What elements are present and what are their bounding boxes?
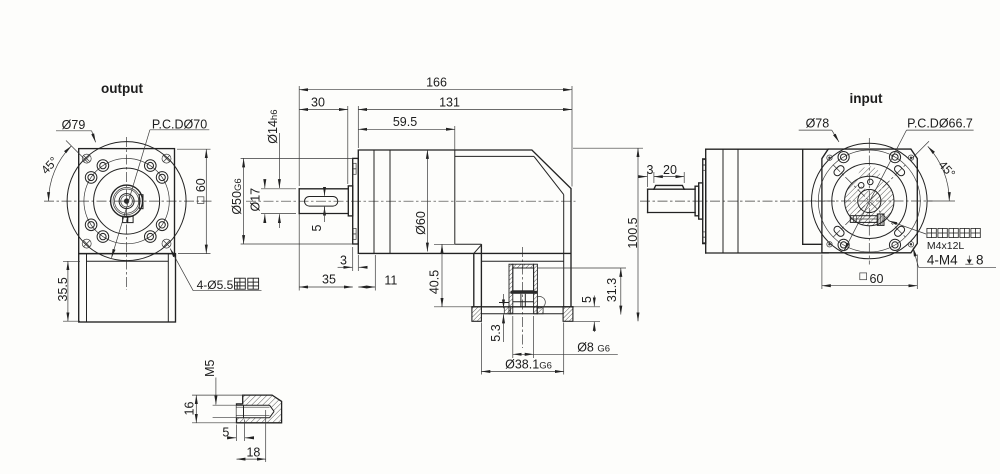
- dimension Ø38.1G6: [481, 323, 563, 375]
- set screw head: [877, 214, 884, 225]
- output shaft: [299, 189, 348, 214]
- ringed hole BR: [889, 239, 900, 250]
- svg-text:8: 8: [976, 253, 984, 268]
- dimension 45 degrees (right): [910, 141, 958, 201]
- slot TR: [893, 164, 906, 177]
- corner hole TR: [908, 155, 913, 160]
- dimension 100.5: [573, 148, 643, 321]
- svg-text:Ø79: Ø79: [62, 118, 86, 132]
- dimension Ø79: [56, 118, 96, 142]
- hatched hub annulus: [845, 166, 894, 226]
- plate tab notches: [703, 160, 706, 165]
- face crosshair centerlines: [806, 200, 933, 202]
- keyway notch right of hub: [139, 195, 143, 209]
- svg-text:40.5: 40.5: [428, 270, 442, 294]
- M5 tapped hole channel: [237, 405, 275, 418]
- dimension 45 degrees (left): [38, 141, 87, 202]
- dimension Ø60: [414, 150, 428, 252]
- set screw body: [850, 216, 877, 223]
- dimension Ø14h6: [266, 109, 280, 228]
- dimension 30: [299, 95, 348, 184]
- dimension P.C.D Ø70: [112, 117, 210, 257]
- dimension 18: [237, 410, 266, 462]
- bottom flange left block (hatched): [472, 307, 482, 322]
- bottom flange top line: [472, 306, 573, 308]
- label 4-Ø5.5 through-holes: [170, 249, 261, 292]
- svg-text:Ø17: Ø17: [249, 188, 263, 212]
- svg-text:3: 3: [340, 254, 347, 268]
- centerline output axis: [246, 200, 576, 202]
- svg-text:60: 60: [870, 272, 884, 286]
- input body: [706, 149, 829, 253]
- dimension M5: [203, 359, 236, 417]
- ringed hole TL: [838, 152, 849, 163]
- corner hole BL: [827, 242, 832, 247]
- ledge line left of bore: [499, 302, 509, 304]
- dimension 5 (keyway width): [310, 187, 324, 231]
- input shaft key: [654, 185, 684, 189]
- svg-text:11: 11: [384, 273, 397, 287]
- dimension 11: [358, 255, 397, 291]
- two small tabs below hub: [123, 216, 128, 222]
- svg-text:M4x12L: M4x12L: [927, 240, 965, 252]
- dimension 35.5: [56, 261, 80, 321]
- label 4-M4 depth 8: [913, 248, 996, 268]
- boss circle: [832, 164, 907, 239]
- bottom flange right block (hatched): [563, 307, 573, 322]
- centerline input axis horizontal: [640, 200, 835, 202]
- centerline horizontal: [44, 200, 213, 202]
- dimension P.C.D Ø66.7: [844, 116, 974, 251]
- hub step 2: [699, 183, 703, 219]
- hub step 1: [695, 186, 699, 216]
- svg-text:5.3: 5.3: [489, 324, 503, 341]
- slot TL: [833, 164, 846, 177]
- centerline input axis: [522, 247, 524, 348]
- slot BL: [833, 225, 846, 238]
- chamfer inner edge at housing left: [474, 245, 482, 254]
- diagonal centerlines: [833, 165, 906, 238]
- two small holes in hub: [858, 183, 864, 189]
- circle Ø78: [812, 143, 928, 259]
- inner right wall line: [563, 195, 565, 307]
- boss circle Ø50: [94, 168, 160, 234]
- svg-text:Ø38.1G6: Ø38.1G6: [505, 358, 552, 372]
- svg-text:M5: M5: [203, 359, 217, 376]
- body internal lines: [722, 149, 724, 253]
- body inner top line: [87, 260, 169, 262]
- bolt circle PCD66.7 (thin): [818, 150, 920, 252]
- bottom face line between blocks: [481, 313, 563, 315]
- set screw circle at right of bore: [537, 297, 545, 309]
- svg-text:35.5: 35.5: [56, 277, 70, 301]
- dimension 20 (key length): [654, 163, 684, 183]
- svg-text:Ø78: Ø78: [806, 116, 830, 130]
- corner hole BR: [908, 242, 913, 247]
- small hatched pieces beside bore: [504, 307, 510, 314]
- svg-text:5: 5: [222, 426, 229, 440]
- svg-text:60: 60: [194, 178, 208, 192]
- svg-text:100.5: 100.5: [626, 217, 640, 248]
- dimension 5 (detail): [222, 420, 253, 442]
- dimension 5.3: [489, 294, 504, 342]
- dimension 16: [182, 395, 242, 423]
- shaft hub step: [348, 186, 352, 216]
- svg-text:30: 30: [311, 95, 325, 109]
- slot BR: [893, 225, 906, 238]
- corner screw TL: [82, 154, 91, 163]
- input flange plate: [703, 159, 706, 244]
- bolt circle PCD70 (thin): [84, 158, 169, 243]
- svg-text:Ø50G6: Ø50G6: [230, 178, 244, 214]
- centerline vertical: [126, 137, 128, 290]
- dimension 40.5: [428, 244, 473, 306]
- thread inner lines: [237, 406, 270, 408]
- dimension 166: [299, 76, 572, 187]
- corner hole TL: [827, 155, 832, 160]
- ringed hole BL: [838, 239, 849, 250]
- input shaft: [648, 189, 696, 212]
- svg-text:output: output: [101, 81, 143, 96]
- corner screw BL: [82, 239, 91, 248]
- svg-text:5: 5: [580, 296, 594, 303]
- svg-text:20: 20: [663, 163, 677, 177]
- 8 bolt holes on PCD70: [85, 160, 168, 243]
- bore cavity: [513, 268, 534, 291]
- housing inner top line: [481, 260, 563, 262]
- face square with chamfered corners: [822, 149, 917, 253]
- body inner top line right section: [455, 155, 534, 157]
- circle Ø79: [67, 142, 186, 261]
- flange tab notches top: [353, 163, 356, 169]
- key dark band: [511, 291, 538, 294]
- svg-text:P.C.DØ70: P.C.DØ70: [152, 117, 207, 131]
- inner chamfer line: [534, 156, 564, 194]
- svg-text:131: 131: [439, 95, 460, 109]
- label hex socket screw M4x12L: [889, 221, 981, 252]
- svg-text:Ø60: Ø60: [414, 211, 428, 235]
- dimension 31.3: [537, 268, 626, 315]
- bore circle: [858, 189, 881, 212]
- input shaft stub below band: [520, 294, 522, 307]
- dimension Ø50G6: [230, 158, 353, 244]
- dimension 3 (input key): [641, 163, 654, 187]
- body inner wall right: [167, 254, 169, 322]
- svg-text:3: 3: [647, 163, 654, 177]
- gearbox body outline (L-shape): [358, 150, 571, 307]
- dimension 5 (flange plate): [573, 296, 600, 333]
- dimension 131: [358, 95, 572, 148]
- dimension Ø17: [249, 181, 296, 222]
- svg-text:4-M4: 4-M4: [927, 253, 958, 268]
- bore left wall hatched: [509, 264, 513, 314]
- flange tab notches bottom: [353, 228, 356, 234]
- dimension 59.5: [358, 115, 455, 150]
- svg-text:5: 5: [310, 224, 324, 231]
- body internal stage lines: [373, 150, 375, 253]
- corner screw BR: [162, 239, 171, 248]
- detail block hatched: [237, 395, 282, 423]
- svg-text:18: 18: [246, 445, 260, 459]
- svg-text:4-Ø5.5: 4-Ø5.5: [197, 278, 234, 292]
- svg-text:input: input: [850, 91, 883, 106]
- dimension 35: [299, 214, 353, 291]
- svg-text:166: 166: [426, 76, 447, 90]
- dimension 3 (flange thickness): [338, 247, 367, 271]
- svg-text:P.C.DØ66.7: P.C.DØ66.7: [907, 116, 973, 130]
- body inner wall left: [86, 254, 88, 322]
- ringed hole TR: [889, 152, 900, 163]
- shaft keyway slot: [305, 197, 338, 207]
- input bore box: top band hatched: [513, 264, 534, 268]
- output flange square: [79, 149, 175, 254]
- svg-text:35: 35: [322, 273, 336, 287]
- output body below flange: [79, 254, 176, 322]
- svg-text:59.5: 59.5: [393, 115, 417, 129]
- center hub rings: [111, 185, 143, 217]
- svg-text:Ø8 G6: Ø8 G6: [577, 341, 610, 355]
- inner line above housing: [455, 243, 481, 245]
- dimension Ø8G6: [513, 316, 618, 358]
- dimension Ø78: [799, 116, 839, 142]
- dimension square-60 (left view): [177, 149, 211, 253]
- corner screw TR: [162, 154, 171, 163]
- svg-text:16: 16: [182, 402, 196, 416]
- svg-text:31.3: 31.3: [605, 278, 619, 302]
- svg-text:Ø14h6: Ø14h6: [266, 109, 280, 143]
- output flange plate: [353, 158, 359, 244]
- bore right wall hatched: [534, 264, 538, 314]
- dimension square-60 (right view): [822, 255, 917, 290]
